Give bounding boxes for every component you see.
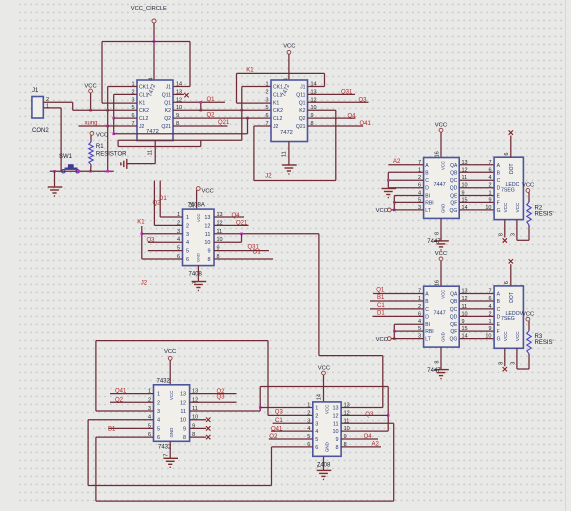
svg-text:K2: K2 [299,108,305,114]
wire U7 pin9 [341,438,378,440]
wire U2 pin1 feed [241,87,243,141]
vcc circle node [152,19,156,23]
svg-text:1: 1 [46,104,49,110]
ground U1 [121,159,127,169]
svg-text:LT: LT [425,208,430,214]
wire J1 pin2 a [43,101,72,103]
wire DSU5 com a [504,348,506,366]
svg-text:Q1: Q1 [299,100,306,106]
svg-text:D1: D1 [253,250,261,256]
svg-text:1: 1 [315,406,318,412]
wire U4 pinB [388,171,423,173]
wire U5 out QE [459,323,494,325]
no-connect U6 pin8 [206,435,210,439]
display DSU4 LEDC [494,157,523,219]
wire U5 pinB [370,300,424,302]
wire U1 gnd lead [127,163,155,165]
svg-text:C: C [425,178,429,184]
wire VCC U6 drop [169,360,171,385]
wire Q1-K2 tie [200,102,202,110]
svg-text:7408: 7408 [189,271,203,277]
wire U1 pin11 [154,141,156,164]
svg-text:VCC: VCC [318,365,330,371]
junction [393,337,396,340]
svg-text:Q1: Q1 [164,100,171,106]
wire R1 bottom [90,165,92,172]
wire net H3 [118,146,201,148]
op IC U2 7472 [271,80,308,142]
no-connect DSU5 dot [509,259,513,263]
svg-text:2: 2 [157,400,160,406]
wire bottom loop drop [382,356,384,408]
wire outer left drop [87,420,89,486]
wire U6 pin10 [190,419,206,421]
svg-text:Q3: Q3 [217,395,226,401]
wire Q3 link drop [387,387,389,432]
wire U5 pinC [370,308,424,310]
svg-text:J2: J2 [265,174,272,180]
wire U5 pinD [373,315,424,317]
junction [106,125,109,128]
svg-text:QA: QA [450,163,458,169]
svg-text:7447: 7447 [434,311,446,317]
wire DSU5 com b [516,348,518,369]
svg-text:6: 6 [504,281,510,284]
wire U3 pin1 [160,216,182,218]
junction [78,170,81,173]
svg-text:5: 5 [315,437,318,443]
svg-text:DOT: DOT [509,163,515,174]
svg-text:QD: QD [450,314,458,320]
wire K1 loop right [324,73,326,86]
wire U1 pin1 [108,86,137,88]
wire U2 pin10 [308,109,336,111]
wire U7 pin7 gnd [323,456,325,470]
svg-text:6: 6 [157,435,160,441]
wire U6 pin4 [88,419,153,421]
wire U6 pin6 [96,436,154,438]
wire U1 pin14 [173,86,190,88]
svg-text:3: 3 [157,409,160,415]
svg-text:VCC: VCC [503,202,508,212]
power VCC U4 LT [387,208,391,212]
wire U5 out QA [459,293,494,295]
wire U2 pin1 [242,86,271,88]
svg-text:1: 1 [186,215,189,221]
switch SW1 [65,165,78,169]
wire bottom loop top [319,355,383,357]
wire bottom line 2 [96,500,394,502]
wire U7 pin11 [341,422,394,424]
svg-text:K1: K1 [137,219,145,225]
resistor R1 [89,142,93,165]
svg-text:4: 4 [157,418,160,424]
svg-text:G: G [497,208,501,214]
no-connect DSU5 com a [503,367,507,371]
svg-text:D1: D1 [377,310,385,316]
wire U4 LT [391,209,424,211]
wire J1 pin1 a [43,107,61,109]
svg-text:QE: QE [450,322,458,328]
svg-text:GND: GND [441,332,446,341]
svg-text:3: 3 [186,232,189,238]
wire loop left U1 to pin3 [101,42,103,104]
junction [200,101,203,104]
wire U5 pin8 gnd [440,347,442,369]
wire U3 pin6 [142,258,183,260]
svg-text:VCC_CIRCLE: VCC_CIRCLE [131,6,167,12]
wire U2 pin7 [254,125,271,127]
wire bottom line1 rise [271,447,273,486]
wire U1 pin6 [114,117,137,119]
wire U2 pin7 drop [253,126,255,181]
wire U2 pin11 [288,142,290,165]
svg-text:6: 6 [504,153,510,156]
svg-text:VCC: VCC [522,311,534,317]
wire U3 pin9 [214,250,269,252]
wire U5 BI [394,323,423,325]
junction [387,414,390,417]
wire U3 pin7 gnd [197,266,199,281]
svg-text:7447: 7447 [434,182,446,188]
wire J1 pin2 b [72,102,74,110]
svg-text:9: 9 [336,437,339,443]
wire Q3 link rise [259,387,261,412]
svg-text:K1: K1 [139,100,145,106]
svg-text:SW1: SW1 [59,154,73,160]
svg-text:CK2: CK2 [139,108,149,114]
svg-text:VCC: VCC [196,213,201,222]
svg-text:C1: C1 [377,303,385,309]
wire R2 top [528,192,530,202]
svg-text:VCC: VCC [441,290,446,299]
svg-text:3: 3 [265,97,268,103]
wire Q3 link top [260,386,388,388]
svg-text:7: 7 [317,465,323,468]
junction [106,170,109,173]
wire U5 out QB [459,300,494,302]
svg-text:14: 14 [317,394,323,400]
wire VCC drop [90,93,92,110]
svg-text:D: D [425,314,429,320]
wire net Q41 U2 [308,125,364,127]
wire U7 pin12 [341,414,388,416]
svg-text:RESISTOR: RESISTOR [96,152,127,158]
svg-text:CK1: CK1 [273,85,283,91]
svg-text:Q4: Q4 [232,213,241,219]
wire U4 out QC [459,179,494,181]
wire pin6 left drop [95,437,97,501]
ground SW1 [48,187,63,196]
junction [112,133,115,136]
junction [200,109,203,112]
svg-text:7SEG: 7SEG [501,316,515,322]
svg-text:QB: QB [450,170,458,176]
svg-text:CON2: CON2 [32,128,49,134]
power VCC J1 [89,89,93,93]
wire VCC U3 drop [196,190,198,209]
svg-text:3: 3 [510,233,516,236]
svg-text:10: 10 [332,429,338,435]
svg-text:11: 11 [333,421,339,427]
svg-text:F: F [497,200,500,206]
wire VCC U2 drop [288,54,290,80]
svg-text:VCC: VCC [376,208,388,214]
svg-text:11: 11 [282,151,288,157]
svg-text:VCC: VCC [503,331,508,341]
svg-text:Q2: Q2 [299,116,306,122]
svg-text:VCC: VCC [441,161,446,170]
wire DSU4 com a [504,220,506,238]
svg-text:VCC: VCC [325,405,330,414]
wire VCC U5 drop [440,261,442,286]
wire bottom line2 rise [393,423,395,501]
svg-text:CL2: CL2 [139,116,149,122]
svg-text:11: 11 [205,232,211,238]
wire U6 pin12 [190,401,237,403]
svg-text:16: 16 [435,151,441,157]
wire U5 RBI [394,330,423,332]
svg-text:K1: K1 [246,67,254,73]
svg-text:Q3: Q3 [275,409,284,415]
wire gnd stub SW1 [54,171,56,186]
wire U6 pin11 [190,410,261,412]
wire U3.11 to bottom drop [318,234,320,356]
wire H2H3 left tie [117,140,119,146]
svg-text:K2: K2 [165,108,171,114]
wire U2 pin14 [308,86,325,88]
wire U4 pinC [388,179,423,181]
wire J2 loop bottom [254,180,336,182]
svg-text:12: 12 [180,400,186,406]
svg-text:6: 6 [186,257,189,263]
svg-text:QC: QC [450,307,458,313]
power VCC U5 [439,257,443,261]
wire U3 pin10 rise [241,234,243,242]
wire VCC_CIRCLE drop [153,23,155,80]
svg-text:VCC: VCC [84,84,96,90]
wire U5 pinA [373,293,424,295]
wire CL net horizontal [114,133,248,135]
wire J1 pin1 down [60,108,62,171]
svg-text:4: 4 [186,240,189,246]
power VCC R2 [526,189,530,193]
svg-text:C: C [425,307,429,313]
wire CL net rise [247,118,249,134]
svg-text:D: D [497,314,501,320]
svg-text:VCC: VCC [202,189,214,195]
wire U4 out QG [459,209,494,211]
svg-text:4: 4 [149,78,155,81]
svg-text:J1: J1 [32,88,39,94]
op IC U1 7472 [137,80,173,141]
svg-text:CK2: CK2 [273,108,283,114]
op IC U3 7408A [183,209,215,266]
wire U1 pin2 [114,93,137,95]
svg-text:VCC: VCC [522,183,534,189]
wire DSU4 com b [516,220,518,241]
svg-text:VCC: VCC [435,251,447,257]
wire U6 pin2 [110,401,154,403]
svg-text:2: 2 [186,223,189,229]
svg-text:Q2: Q2 [164,116,171,122]
junction [387,179,390,182]
svg-text:VCC: VCC [515,331,520,341]
no-connect DSU4 com a [503,238,507,242]
svg-text:J2: J2 [141,281,148,287]
ground U4 [434,241,449,250]
svg-text:R1: R1 [96,144,104,150]
wire SW1 row [50,170,114,172]
svg-text:Q11: Q11 [296,92,305,98]
op IC U6 7432 [154,385,190,442]
wire U7 pin3 [273,422,313,424]
svg-text:7447: 7447 [427,368,441,374]
wire net Q31 U2 [308,93,356,95]
svg-text:RESIS': RESIS' [535,212,554,218]
wire net H2 [118,139,242,141]
wire net Q4 U2 [308,117,356,119]
wire DSU4 dot pin [510,136,512,158]
wire net Q3 U2 [308,101,369,103]
wire U4 pinA [388,164,423,166]
svg-text:D: D [425,186,429,192]
svg-text:RBI: RBI [425,200,433,206]
svg-text:3: 3 [131,97,134,103]
svg-text:13: 13 [332,406,338,412]
resistor R3 [527,331,531,354]
svg-text:GND: GND [169,428,174,438]
svg-text:VCC: VCC [283,44,295,50]
wire top loop left drop [95,341,97,411]
svg-text:Q1: Q1 [376,288,385,294]
svg-text:11: 11 [148,150,154,156]
wire U5 BI drop [393,324,395,338]
no-connect U1 pin13 [184,93,188,97]
wire U7 pin13 [341,407,383,409]
wire DSU5 to R [517,368,529,370]
wire K1 loop left [236,73,238,103]
wire bottom line 1 [88,485,271,487]
svg-text:C: C [497,178,501,184]
svg-text:GND: GND [325,442,330,452]
svg-text:QC: QC [450,178,458,184]
svg-text:5: 5 [186,249,189,255]
svg-text:C: C [497,307,501,313]
wire net Q2 row [173,117,271,119]
junction [53,170,56,173]
wire U3 pin12 [214,224,249,226]
svg-text:B1: B1 [377,295,385,301]
wire U3 pin5 [148,250,183,252]
svg-text:CK1: CK1 [139,85,149,91]
junction [241,109,244,112]
no-connect DSU4 dot [509,130,513,134]
wire U3 pin8 [214,258,273,260]
svg-text:Q11: Q11 [162,92,171,98]
svg-text:G: G [497,337,501,343]
wire CL tie vertical [113,94,115,133]
svg-text:7408A: 7408A [188,203,205,209]
svg-text:7472: 7472 [280,130,293,136]
wire U6 pin8 [190,436,206,438]
power VCC R3 [526,317,530,321]
svg-text:8: 8 [435,232,441,235]
svg-text:D: D [497,186,501,192]
svg-text:QD: QD [450,186,458,192]
svg-text:1: 1 [157,392,160,398]
svg-text:GND: GND [441,204,446,213]
svg-text:14: 14 [176,82,182,88]
wire U4 RBI [394,201,423,203]
svg-text:B1: B1 [108,427,116,433]
svg-text:5: 5 [157,426,160,432]
junction [259,406,262,409]
junction [106,109,109,112]
svg-text:8: 8 [336,445,339,451]
svg-text:VCC: VCC [164,349,176,355]
svg-text:QG: QG [450,337,458,343]
svg-text:6: 6 [315,445,318,451]
wire U6 pin1 [110,393,154,395]
junction [393,209,396,212]
svg-text:10: 10 [204,240,210,246]
svg-text:RESIS': RESIS' [535,340,554,346]
ground U4 inputs [382,189,397,198]
svg-text:14: 14 [311,82,317,88]
junction [246,117,249,120]
svg-text:13: 13 [180,392,186,398]
wire U5 out QG [459,338,494,340]
wire U3 pin4 [148,241,183,243]
op IC U4 7447 [424,158,460,219]
wire R1 top [90,135,92,142]
svg-text:2: 2 [265,89,268,95]
svg-text:4: 4 [315,429,318,435]
svg-text:9: 9 [207,249,210,255]
svg-text:VCC: VCC [376,337,388,343]
display DSU5 LEDOV [494,286,523,348]
svg-text:8: 8 [435,361,441,364]
wire U5 LT [391,338,424,340]
wire K2 row to U2 [173,109,271,111]
wire loop right U1 [189,42,191,87]
svg-text:11: 11 [180,409,186,415]
svg-text:16: 16 [435,280,441,286]
svg-text:QG: QG [450,208,458,214]
wire U7 pin2 [268,414,313,416]
op IC U7 7408 [313,402,341,456]
svg-text:LT: LT [425,337,430,343]
wire U4 pinD [388,187,423,189]
wire R2 bottom [528,225,530,240]
wire net xung [79,125,138,127]
junction [112,117,115,120]
wire loop top U1 [102,41,190,43]
svg-text:8: 8 [498,362,504,365]
wire U1 pin13 [173,93,184,95]
svg-text:3: 3 [315,421,318,427]
svg-text:A2: A2 [393,159,401,165]
svg-text:Q21: Q21 [218,120,230,126]
junction [141,233,144,236]
wire K1 loop top [237,72,325,74]
wire U6 pin3 [96,410,154,412]
wire top loop right drop [267,341,269,416]
wire net Q1 [173,101,225,103]
wire U1 pin5 VCC row [73,109,137,111]
svg-text:F: F [497,329,500,335]
